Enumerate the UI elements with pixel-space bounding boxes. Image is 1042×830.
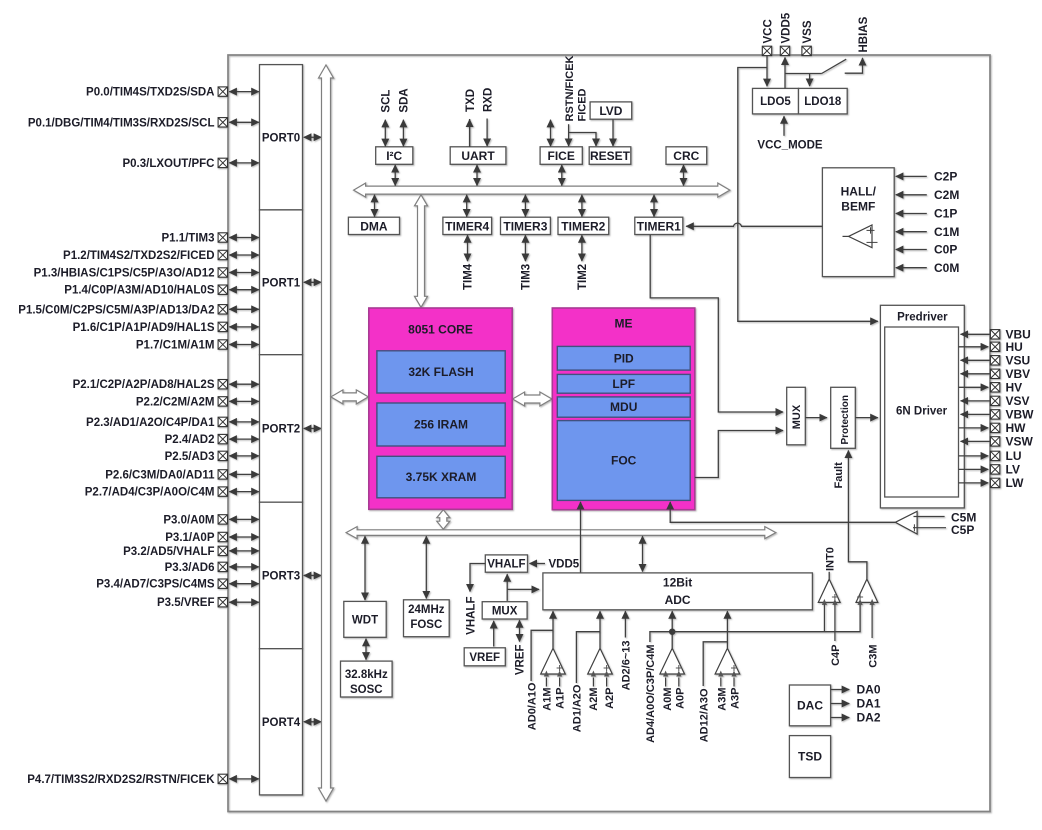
svg-text:SOSC: SOSC bbox=[350, 684, 383, 696]
wire A0P input stub bbox=[678, 678, 680, 687]
pin P3.0/A0M bbox=[218, 515, 227, 524]
wire C0P input bbox=[896, 249, 927, 251]
svg-text:PID: PID bbox=[614, 352, 634, 366]
block TIMER2 bbox=[558, 217, 609, 234]
pin VBV bbox=[990, 369, 999, 378]
svg-text:P0.1/DBG/TIM4/TIM3S/RXD2S/SCL: P0.1/DBG/TIM4/TIM3S/RXD2S/SCL bbox=[28, 117, 215, 129]
pin VCC bbox=[762, 46, 771, 55]
pin P4.7/TIM3S2/RXD2S2/RSTN/FICEK bbox=[218, 774, 227, 783]
wire C4P input bbox=[834, 605, 836, 642]
wire C1P input bbox=[896, 213, 927, 215]
block RESET bbox=[589, 147, 631, 165]
bus from top bus down to 8051 core bbox=[415, 195, 428, 307]
pin P2.7/AD4/C3P/A0O/C4M bbox=[218, 487, 227, 496]
pin HV bbox=[990, 383, 999, 392]
svg-text:Predriver: Predriver bbox=[897, 312, 948, 324]
wire VCC to LDO5 bbox=[766, 56, 768, 86]
main internal vertical bus bbox=[319, 65, 334, 801]
pin VBU bbox=[990, 330, 999, 339]
svg-text:C0P: C0P bbox=[934, 243, 957, 257]
block TIMER3 bbox=[501, 217, 551, 234]
pin P3.5/VREF bbox=[218, 598, 227, 607]
wire bus to WDT bbox=[364, 536, 366, 600]
svg-text:VSU: VSU bbox=[1006, 354, 1031, 368]
wire bus to FOSC bbox=[425, 536, 427, 598]
svg-text:PORT0: PORT0 bbox=[262, 132, 300, 144]
block PORT2 bbox=[260, 355, 303, 503]
svg-text:LVD: LVD bbox=[599, 104, 622, 118]
block 256 IRAM bbox=[377, 403, 505, 446]
wire comparator output to ADC bbox=[726, 611, 728, 648]
block Predriver bbox=[880, 305, 964, 508]
pin VSV bbox=[990, 396, 999, 405]
svg-text:3.75K XRAM: 3.75K XRAM bbox=[406, 470, 477, 484]
wire C5P input bbox=[913, 527, 946, 529]
pin P3.4/AD7/C3PS/C4MS bbox=[218, 579, 227, 588]
wire TIM4 bbox=[467, 235, 469, 261]
wire VCC rail to Predriver bbox=[738, 68, 878, 322]
wire PORT4 to internal bus bbox=[304, 721, 321, 723]
wire SCL bbox=[384, 120, 386, 146]
svg-text:HALL/: HALL/ bbox=[841, 185, 877, 199]
block DMA bbox=[348, 217, 399, 234]
block 3.75K XRAM bbox=[377, 456, 505, 498]
block TIMER4 bbox=[443, 217, 492, 234]
wire AD2 input to ADC bbox=[624, 611, 626, 637]
svg-text:PORT1: PORT1 bbox=[262, 278, 301, 290]
pin P3.3/AD6 bbox=[218, 562, 227, 571]
wire SDA bbox=[402, 120, 404, 146]
pin P0.3/LXOUT/PFC bbox=[218, 158, 227, 167]
svg-text:Fault: Fault bbox=[833, 462, 845, 489]
svg-text:P3.5/VREF: P3.5/VREF bbox=[157, 597, 215, 609]
wire PORT3 to internal bus bbox=[304, 574, 321, 576]
svg-text:A2P: A2P bbox=[604, 688, 616, 709]
svg-text:P0.3/LXOUT/PFC: P0.3/LXOUT/PFC bbox=[122, 158, 214, 170]
svg-text:P2.5/AD3: P2.5/AD3 bbox=[165, 451, 215, 463]
pin P2.1/C2P/A2P/AD8/HAL2S bbox=[218, 380, 227, 389]
svg-text:PORT2: PORT2 bbox=[262, 424, 300, 436]
block 24MHz FOSC bbox=[404, 600, 450, 637]
wire VDD5 to VHALF bbox=[530, 563, 546, 565]
pin HU bbox=[990, 342, 999, 351]
wire TIMER1 to bus bbox=[653, 195, 655, 217]
wire C2P input bbox=[896, 175, 927, 177]
bus arrow 8051 core to ME bbox=[513, 392, 552, 406]
wire FOC to MUX bbox=[695, 431, 783, 478]
svg-text:CRC: CRC bbox=[673, 149, 699, 163]
block FOC bbox=[557, 421, 690, 501]
svg-text:P1.7/C1M/A1M: P1.7/C1M/A1M bbox=[136, 340, 215, 352]
wire VREF to MUX bbox=[493, 621, 495, 647]
block 12Bit ADC bbox=[543, 573, 813, 610]
svg-text:VDD5: VDD5 bbox=[780, 12, 792, 43]
svg-text:P1.2/TIM4S2/TXD2S2/FICED: P1.2/TIM4S2/TXD2S2/FICED bbox=[63, 250, 214, 262]
wire AD1/A2O feed bbox=[576, 632, 600, 683]
block PORT1 bbox=[260, 210, 303, 355]
wire FICE to bus bbox=[561, 165, 563, 186]
pin P1.5/C0M/C2PS/C5M/A3P/AD13/DA2 bbox=[218, 305, 227, 314]
svg-text:AD2/6~13: AD2/6~13 bbox=[621, 641, 633, 691]
pin P1.7/C1M/A1M bbox=[218, 340, 227, 349]
svg-text:32K FLASH: 32K FLASH bbox=[408, 365, 473, 379]
block VHALF bbox=[485, 555, 527, 572]
svg-text:P2.3/AD1/A2O/C4P/DA1: P2.3/AD1/A2O/C4P/DA1 bbox=[86, 417, 215, 429]
svg-text:VBV: VBV bbox=[1006, 367, 1031, 381]
block 32.8kHz SOSC bbox=[341, 661, 393, 697]
svg-text:FOC: FOC bbox=[611, 454, 637, 468]
svg-text:A3M: A3M bbox=[717, 688, 729, 711]
svg-text:LU: LU bbox=[1006, 449, 1022, 463]
block VREF bbox=[464, 648, 505, 666]
svg-text:P3.2/AD5/VHALF: P3.2/AD5/VHALF bbox=[123, 546, 214, 558]
svg-text:FOSC: FOSC bbox=[410, 619, 442, 631]
wire DA0 output bbox=[831, 689, 850, 691]
svg-text:P1.1/TIM3: P1.1/TIM3 bbox=[161, 233, 214, 245]
pin P1.4/C0P/A3M/AD10/HAL0S bbox=[218, 285, 227, 294]
pin P2.3/AD1/A2O/C4P/DA1 bbox=[218, 417, 227, 426]
wire ADC to FOC bbox=[580, 502, 582, 573]
block Protection bbox=[831, 387, 856, 448]
wire AD12/A3O feed bbox=[703, 642, 727, 686]
svg-text:MDU: MDU bbox=[610, 400, 637, 414]
pin VSU bbox=[990, 356, 999, 365]
block PORT3 bbox=[260, 502, 303, 649]
comparator at x=600.0 bbox=[588, 648, 613, 674]
wire comparator output to ADC bbox=[552, 611, 554, 648]
wire Protection to 6N Driver bbox=[855, 417, 878, 419]
svg-text:Protection: Protection bbox=[840, 395, 851, 444]
node junction C3P/C4M bbox=[669, 629, 675, 635]
svg-text:BEMF: BEMF bbox=[841, 200, 875, 214]
comparator symbol inside HALL/BEMF bbox=[843, 225, 878, 248]
wire LVD to RESET bbox=[612, 119, 614, 146]
block CRC bbox=[666, 147, 707, 165]
block PORT4 bbox=[260, 649, 303, 795]
svg-text:DMA: DMA bbox=[360, 219, 388, 233]
svg-text:ME: ME bbox=[615, 317, 633, 331]
block 8051 CORE bbox=[369, 308, 512, 509]
block 6N Driver bbox=[885, 327, 959, 497]
svg-text:I²C: I²C bbox=[386, 149, 402, 163]
pin P2.5/AD3 bbox=[218, 451, 227, 460]
wire CRC to bus bbox=[683, 165, 685, 186]
svg-text:VBW: VBW bbox=[1006, 408, 1035, 422]
bus arrow 8051 core to lower bus bbox=[437, 510, 450, 530]
svg-text:A2M: A2M bbox=[588, 688, 600, 711]
pin P1.3/HBIAS/C1PS/C5P/A3O/AD12 bbox=[218, 268, 227, 277]
svg-text:LV: LV bbox=[1006, 463, 1020, 477]
wire VHALF to MUX bbox=[506, 574, 508, 601]
wire INT0 comparator minus input bbox=[823, 605, 825, 632]
svg-text:FICED: FICED bbox=[576, 88, 588, 121]
wire VCC_MODE to LDO5 bbox=[783, 116, 785, 136]
pin VSS bbox=[802, 46, 811, 55]
svg-text:C0M: C0M bbox=[934, 261, 959, 275]
svg-text:P1.3/HBIAS/C1PS/C5P/A3O/AD12: P1.3/HBIAS/C1PS/C5P/A3O/AD12 bbox=[34, 268, 215, 280]
wire PORT0 to internal bus bbox=[304, 136, 321, 138]
comparator C3 bbox=[856, 579, 878, 602]
pin P3.2/AD5/VHALF bbox=[218, 546, 227, 555]
svg-text:P2.1/C2P/A2P/AD8/HAL2S: P2.1/C2P/A2P/AD8/HAL2S bbox=[73, 379, 215, 391]
wire AD0/A1O feed bbox=[531, 630, 553, 681]
switch HBIAS bbox=[822, 59, 847, 73]
svg-text:SCL: SCL bbox=[381, 90, 393, 113]
svg-text:AD4/A0O/C3P/C4M: AD4/A0O/C3P/C4M bbox=[645, 645, 657, 743]
svg-text:PORT3: PORT3 bbox=[262, 571, 300, 583]
svg-text:P1.4/C0P/A3M/AD10/HAL0S: P1.4/C0P/A3M/AD10/HAL0S bbox=[64, 285, 215, 297]
wire A1M input stub bbox=[545, 678, 547, 687]
wire comparator output to ADC bbox=[599, 611, 601, 648]
svg-text:VSS: VSS bbox=[802, 20, 814, 43]
svg-text:HBIAS: HBIAS bbox=[858, 16, 870, 52]
pin VDD5 bbox=[780, 46, 789, 55]
wire C0M input bbox=[896, 267, 927, 269]
svg-text:SDA: SDA bbox=[399, 88, 411, 112]
comparator at x=672.2 bbox=[660, 648, 685, 674]
svg-text:A0M: A0M bbox=[662, 688, 674, 711]
wire INT0 output bbox=[828, 572, 830, 579]
svg-text:TIMER4: TIMER4 bbox=[445, 219, 489, 233]
block PID bbox=[557, 346, 690, 370]
pin LV bbox=[990, 465, 999, 474]
wire C3P/C4M rail to INT0 comparators bbox=[672, 605, 860, 632]
svg-text:8051 CORE: 8051 CORE bbox=[408, 323, 473, 337]
wire C3M input bbox=[871, 605, 873, 639]
svg-text:RXD: RXD bbox=[482, 88, 494, 112]
block I2C bbox=[376, 147, 413, 165]
lower horizontal bus bbox=[346, 527, 776, 539]
svg-text:MUX: MUX bbox=[791, 404, 803, 429]
svg-text:C1P: C1P bbox=[934, 207, 957, 221]
svg-text:VCC: VCC bbox=[762, 19, 774, 43]
wire DMA to bus bbox=[374, 195, 376, 217]
wire C5 comparator output to FOC bbox=[670, 502, 895, 522]
svg-text:P2.7/AD4/C3P/A0O/C4M: P2.7/AD4/C3P/A0O/C4M bbox=[85, 487, 215, 499]
wire LDO5 to VDD5 pin bbox=[784, 57, 786, 88]
pin VBW bbox=[990, 410, 999, 419]
svg-text:P3.3/AD6: P3.3/AD6 bbox=[165, 562, 215, 574]
pin P1.1/TIM3 bbox=[218, 233, 227, 242]
svg-text:TIMER1: TIMER1 bbox=[637, 219, 681, 233]
svg-text:P3.1/A0P: P3.1/A0P bbox=[165, 532, 215, 544]
svg-text:P0.0/TIM4S/TXD2S/SDA: P0.0/TIM4S/TXD2S/SDA bbox=[86, 87, 214, 99]
wire RXD bbox=[486, 119, 488, 147]
wire TXD bbox=[469, 119, 471, 147]
svg-text:PORT4: PORT4 bbox=[262, 717, 301, 729]
wire A3M input stub bbox=[720, 678, 722, 687]
wire UART to bus bbox=[476, 165, 478, 186]
wire A2P input stub bbox=[606, 678, 608, 687]
svg-text:256 IRAM: 256 IRAM bbox=[414, 418, 468, 432]
svg-text:INT0: INT0 bbox=[824, 547, 836, 571]
block LVD bbox=[590, 102, 632, 119]
wire A1P input stub bbox=[559, 678, 561, 687]
pin P2.2/C2M/A2M bbox=[218, 397, 227, 406]
svg-text:WDT: WDT bbox=[352, 615, 378, 627]
pin LW bbox=[990, 478, 999, 487]
block LDO18 bbox=[799, 88, 848, 114]
svg-text:TSD: TSD bbox=[798, 750, 822, 764]
block MUX reference bbox=[482, 602, 527, 619]
svg-text:P1.6/C1P/A1P/AD9/HAL1S: P1.6/C1P/A1P/AD9/HAL1S bbox=[73, 322, 215, 334]
wire comparator output to ADC bbox=[671, 611, 673, 648]
wire RSTN/FICEK to FICE and RESET bbox=[568, 124, 570, 146]
comparator at x=553.0 bbox=[541, 648, 566, 674]
svg-text:DA2: DA2 bbox=[857, 711, 881, 725]
wire C2M input bbox=[896, 194, 927, 196]
pin P3.1/A0P bbox=[218, 532, 227, 541]
svg-text:P1.5/C0M/C2PS/C5M/A3P/AD13/DA2: P1.5/C0M/C2PS/C5M/A3P/AD13/DA2 bbox=[18, 304, 214, 316]
wire FICED bidirectional bbox=[550, 120, 552, 146]
svg-text:DA1: DA1 bbox=[857, 697, 881, 711]
svg-text:UART: UART bbox=[461, 149, 495, 163]
svg-text:C5P: C5P bbox=[951, 523, 974, 537]
wire DA2 output bbox=[831, 717, 850, 719]
svg-text:VREF: VREF bbox=[515, 645, 527, 676]
svg-text:A1P: A1P bbox=[555, 688, 567, 709]
pin P1.2/TIM4S2/TXD2S2/FICED bbox=[218, 250, 227, 259]
block HALL/BEMF bbox=[822, 168, 894, 277]
wire PORT2 to internal bus bbox=[304, 427, 321, 429]
wire Fault from comparator to Protection bbox=[848, 451, 867, 579]
pin LU bbox=[990, 451, 999, 460]
svg-text:LW: LW bbox=[1006, 476, 1025, 490]
block FICE bbox=[540, 147, 582, 165]
pin VSW bbox=[990, 437, 999, 446]
svg-text:ADC: ADC bbox=[665, 593, 691, 607]
svg-text:VHALF: VHALF bbox=[487, 559, 525, 571]
block TIMER1 bbox=[635, 217, 683, 234]
wire TIMER1 to MUX bbox=[650, 235, 783, 412]
svg-text:RESET: RESET bbox=[590, 149, 631, 163]
pin P0.0/TIM4S/TXD2S/SDA bbox=[218, 87, 227, 96]
svg-text:HW: HW bbox=[1006, 421, 1027, 435]
svg-text:32.8kHz: 32.8kHz bbox=[345, 669, 388, 681]
svg-text:LDO5: LDO5 bbox=[760, 96, 791, 108]
svg-text:DAC: DAC bbox=[797, 699, 823, 713]
svg-text:TXD: TXD bbox=[465, 89, 477, 112]
wire TIM3 bbox=[524, 235, 526, 261]
svg-text:FICE: FICE bbox=[548, 149, 575, 163]
svg-text:C4P: C4P bbox=[830, 645, 842, 666]
svg-text:P2.4/AD2: P2.4/AD2 bbox=[165, 434, 215, 446]
svg-text:C3M: C3M bbox=[867, 645, 879, 668]
wire C1M input bbox=[896, 231, 927, 233]
wire C5M input bbox=[914, 516, 945, 518]
pin P1.6/C1P/A1P/AD9/HAL1S bbox=[218, 322, 227, 331]
svg-text:TIM4: TIM4 bbox=[463, 263, 475, 290]
svg-text:AD0/A1O: AD0/A1O bbox=[526, 682, 538, 730]
svg-text:VREF: VREF bbox=[469, 652, 500, 664]
pin P2.4/AD2 bbox=[218, 434, 227, 443]
svg-text:P3.0/A0M: P3.0/A0M bbox=[163, 514, 214, 526]
svg-text:LPF: LPF bbox=[612, 377, 635, 391]
wire TIM2 bbox=[581, 235, 583, 261]
wire MUX to Protection bbox=[805, 417, 827, 419]
svg-text:6N Driver: 6N Driver bbox=[896, 406, 948, 418]
svg-text:C2P: C2P bbox=[934, 170, 957, 184]
wire TIMER4 to bus bbox=[466, 195, 468, 217]
block LPF bbox=[557, 374, 690, 393]
svg-text:A0P: A0P bbox=[675, 688, 687, 709]
svg-text:12Bit: 12Bit bbox=[663, 576, 692, 590]
block 32K FLASH bbox=[377, 351, 505, 393]
block LDO5 bbox=[753, 88, 799, 114]
wire A0M input stub bbox=[665, 678, 667, 687]
svg-text:LDO18: LDO18 bbox=[804, 96, 842, 108]
svg-text:TIMER2: TIMER2 bbox=[561, 219, 605, 233]
block TSD bbox=[789, 736, 830, 778]
svg-text:TIM2: TIM2 bbox=[577, 264, 589, 290]
wire TIMER3 to bus bbox=[524, 195, 526, 217]
comparator at x=727.4 bbox=[715, 648, 740, 674]
chip boundary bbox=[228, 55, 990, 812]
top peripheral horizontal bus bbox=[354, 183, 730, 197]
svg-text:DA0: DA0 bbox=[857, 683, 881, 697]
wire HALL/BEMF to TIMER1 with hop bbox=[686, 223, 822, 226]
wire TIMER2 to bus bbox=[581, 195, 583, 217]
wire to HBIAS pin bbox=[845, 58, 863, 73]
svg-text:P2.2/C2M/A2M: P2.2/C2M/A2M bbox=[136, 396, 215, 408]
comparator INT0 bbox=[818, 579, 840, 602]
svg-text:24MHz: 24MHz bbox=[408, 604, 445, 616]
block WDT bbox=[344, 601, 386, 637]
svg-text:VCC_MODE: VCC_MODE bbox=[757, 140, 823, 152]
wire A3P input stub bbox=[733, 678, 735, 687]
svg-text:P4.7/TIM3S2/RXD2S2/RSTN/FICEK: P4.7/TIM3S2/RXD2S2/RSTN/FICEK bbox=[27, 774, 215, 786]
bus arrow vertical bus to 8051 core bbox=[331, 390, 368, 404]
comparator C5 bbox=[895, 511, 917, 534]
svg-text:A1M: A1M bbox=[542, 688, 554, 711]
wire ADC to lower bus bbox=[642, 536, 644, 571]
block PORT0 bbox=[260, 65, 303, 210]
svg-text:VHALF: VHALF bbox=[465, 597, 477, 635]
wire VDD5 branch to LDO18 bbox=[785, 73, 822, 75]
svg-text:VDD5: VDD5 bbox=[549, 559, 580, 571]
wire DA1 output bbox=[831, 703, 850, 705]
svg-text:HU: HU bbox=[1006, 340, 1023, 354]
svg-text:C1M: C1M bbox=[934, 225, 959, 239]
block ME bbox=[552, 308, 695, 510]
svg-text:MUX: MUX bbox=[492, 606, 518, 618]
svg-text:A3P: A3P bbox=[730, 688, 742, 709]
svg-text:RSTN/FICEK: RSTN/FICEK bbox=[564, 55, 576, 121]
wire I2C to bus bbox=[394, 165, 396, 186]
svg-text:AD12/A3O: AD12/A3O bbox=[699, 688, 711, 742]
svg-text:TIMER3: TIMER3 bbox=[503, 219, 547, 233]
svg-text:VSW: VSW bbox=[1006, 435, 1034, 449]
wire A2M input stub bbox=[592, 678, 594, 687]
svg-text:P3.4/AD7/C3PS/C4MS: P3.4/AD7/C3PS/C4MS bbox=[96, 579, 215, 591]
block DAC bbox=[789, 685, 830, 726]
wire VREF pin stub bbox=[519, 620, 521, 641]
svg-text:TIM3: TIM3 bbox=[521, 264, 533, 290]
pin P2.6/C3M/DA0/AD11 bbox=[218, 470, 227, 479]
svg-text:HV: HV bbox=[1006, 381, 1023, 395]
wire VHALF/MUX to ADC bbox=[507, 588, 539, 590]
wire AD4/A0O/C3P/C4M feed bbox=[650, 632, 672, 642]
pin P0.1/DBG/TIM4/TIM3S/RXD2S/SCL bbox=[218, 118, 227, 127]
block MDU bbox=[557, 397, 690, 417]
block UART bbox=[450, 147, 506, 165]
svg-text:P2.6/C3M/DA0/AD11: P2.6/C3M/DA0/AD11 bbox=[105, 469, 215, 481]
wire VHALF output pin bbox=[470, 564, 485, 592]
svg-text:VSV: VSV bbox=[1006, 394, 1030, 408]
wire WDT to SOSC bbox=[365, 639, 367, 660]
svg-text:AD1/A2O: AD1/A2O bbox=[572, 684, 584, 732]
wire PORT1 to internal bus bbox=[304, 281, 321, 283]
